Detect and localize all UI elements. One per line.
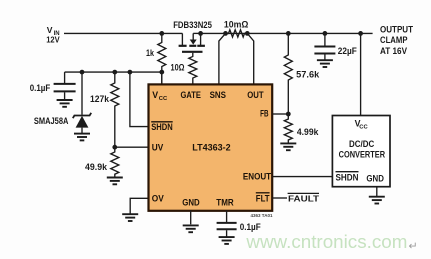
svg-text:V: V	[152, 90, 158, 100]
svg-text:TMR: TMR	[216, 198, 234, 208]
svg-text:V: V	[47, 25, 53, 35]
svg-text:OUTPUT: OUTPUT	[380, 24, 414, 34]
svg-text:49.9k: 49.9k	[85, 162, 107, 172]
svg-text:10mΩ: 10mΩ	[224, 19, 249, 29]
svg-text:ENOUT: ENOUT	[243, 171, 272, 181]
svg-text:UV: UV	[152, 142, 164, 152]
svg-text:OUT: OUT	[247, 90, 264, 100]
svg-text:DC/DC: DC/DC	[349, 139, 375, 149]
svg-text:www.cntronics.com: www.cntronics.com	[245, 231, 407, 252]
svg-text:FLT: FLT	[256, 193, 270, 203]
svg-text:FDB33N25: FDB33N25	[173, 20, 212, 30]
svg-text:CONVERTER: CONVERTER	[339, 149, 386, 159]
svg-text:GATE: GATE	[181, 90, 202, 100]
svg-text:1k: 1k	[146, 48, 154, 58]
svg-text:CC: CC	[159, 96, 168, 102]
svg-text:OV: OV	[152, 194, 164, 204]
svg-text:10Ω: 10Ω	[171, 63, 185, 73]
svg-text:127k: 127k	[90, 94, 109, 104]
svg-text:57.6k: 57.6k	[296, 70, 319, 80]
svg-text:AT 16V: AT 16V	[380, 46, 407, 56]
svg-text:SNS: SNS	[210, 90, 227, 100]
svg-text:GND: GND	[182, 198, 199, 208]
svg-text:SHDN: SHDN	[151, 122, 173, 132]
svg-text:SMAJ58A: SMAJ58A	[34, 116, 69, 126]
svg-text:↵: ↵	[409, 241, 418, 253]
svg-text:LT4363-2: LT4363-2	[192, 142, 230, 152]
svg-text:CLAMP: CLAMP	[380, 35, 408, 45]
svg-text:FAULT: FAULT	[288, 194, 320, 204]
svg-text:0.1µF: 0.1µF	[30, 83, 51, 93]
svg-text:4363 TA01: 4363 TA01	[251, 213, 274, 218]
svg-text:GND: GND	[366, 174, 384, 184]
svg-text:FB: FB	[260, 109, 268, 119]
svg-text:CC: CC	[359, 124, 368, 130]
svg-text:4.99k: 4.99k	[297, 127, 319, 137]
svg-text:22µF: 22µF	[338, 46, 358, 56]
svg-text:12V: 12V	[46, 35, 60, 45]
svg-text:SHDN: SHDN	[336, 173, 359, 183]
